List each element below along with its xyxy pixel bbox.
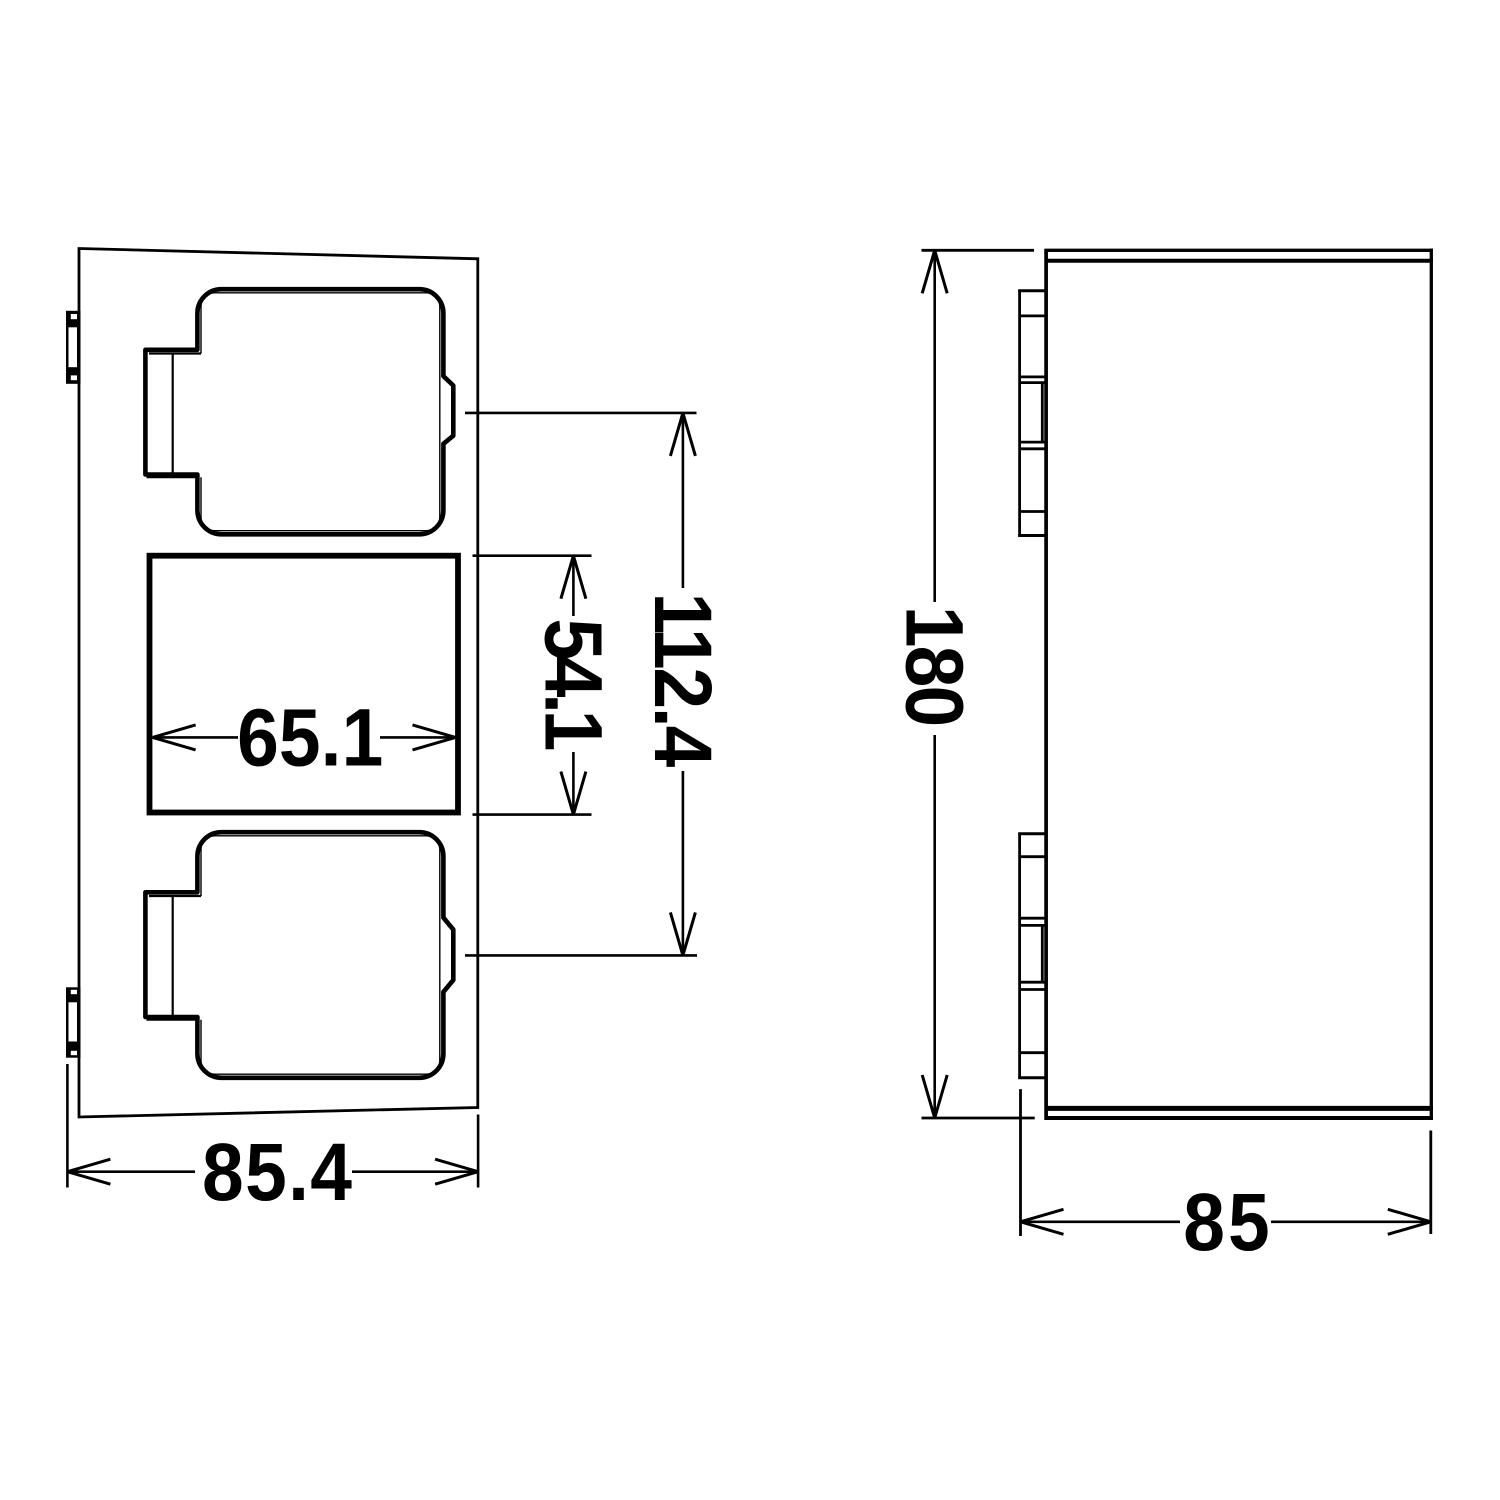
svg-text:85.4: 85.4 (202, 1126, 352, 1218)
dimension 180 arrows (922, 250, 947, 1118)
dimension 112.4 line (682, 413, 685, 956)
dimension 85.4 line (67, 1170, 478, 1173)
top-left clip (front view) (66, 311, 81, 384)
side top clip (1018, 290, 1046, 537)
middle square cutout (150, 556, 459, 813)
bottom-left clip (front view) (66, 987, 81, 1057)
dimension 54.1 extension lines (473, 556, 592, 815)
side box top flange lines (1045, 249, 1434, 252)
bottom socket cutout outer outline (145, 832, 453, 1078)
side box bottom flange lines (1045, 1106, 1434, 1111)
dimension 85 extension lines (1021, 1089, 1431, 1236)
side bottom clip (1018, 833, 1046, 1079)
top socket tab thin lines (147, 354, 202, 478)
dimension 54.1 line (572, 556, 575, 815)
svg-text:54.1: 54.1 (528, 618, 620, 751)
dimension 85.4 arrows (67, 1159, 478, 1184)
bottom socket inner thin outline (201, 836, 440, 1074)
top socket cutout outer outline (145, 289, 453, 534)
side box left edge (1044, 249, 1048, 1120)
top socket inner thin outline (201, 293, 440, 531)
dimension 180 line (933, 250, 936, 1118)
svg-text:65.1: 65.1 (237, 692, 383, 784)
svg-text:180: 180 (889, 606, 981, 727)
dimension 112.4 extension lines (465, 413, 697, 956)
front plate outline (79, 249, 478, 1118)
dimension 85 line (1021, 1221, 1431, 1224)
dimension 85 arrows (1021, 1209, 1431, 1234)
dimension 65.1 line (153, 736, 456, 739)
side box right edge (1430, 249, 1433, 1120)
bottom socket tab thin lines (147, 896, 202, 1020)
dimension 54.1 arrows (561, 556, 586, 815)
svg-text:112.4: 112.4 (637, 593, 729, 768)
dimension 112.4 arrows (670, 413, 695, 956)
dimension 85.4 extension lines (67, 1064, 478, 1188)
dimension 65.1 arrows (153, 725, 456, 750)
dimension 180 extension lines (922, 250, 1035, 1118)
